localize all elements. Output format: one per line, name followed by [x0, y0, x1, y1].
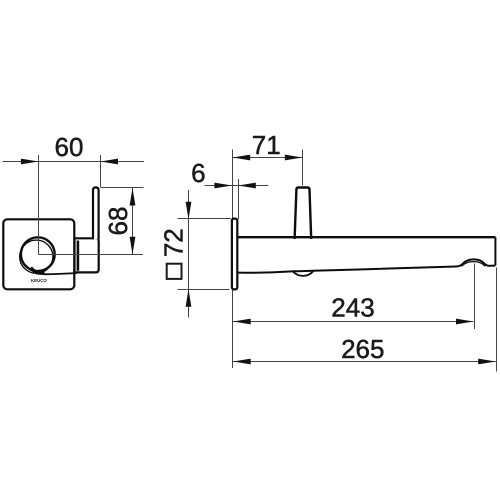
dimension 72 top arrow — [186, 202, 192, 220]
spout bottom edge with aerator arch — [237, 259, 495, 272]
horizontal centerline of knob — [38, 254, 143, 256]
svg-text:243: 243 — [331, 293, 374, 323]
svg-text:KEUCO: KEUCO — [31, 278, 47, 283]
aerator extension line — [474, 264, 476, 330]
right end extension line — [496, 268, 498, 372]
dimension 243 line — [233, 321, 474, 323]
dimension 68 down arrow — [130, 237, 136, 255]
svg-text:60: 60 — [55, 132, 84, 162]
dimension 71 left arrow — [233, 155, 251, 161]
dimension 265 left arrow — [233, 359, 251, 365]
dimension 72 line — [188, 190, 190, 318]
dimension 72 bottom arrow — [186, 289, 192, 307]
spout wall flange (side view) — [232, 219, 237, 290]
dimension 265 right arrow — [478, 359, 496, 365]
dimension 6 right arrow — [238, 183, 256, 189]
dimension 243 left arrow — [233, 319, 251, 325]
dimension 68 line — [132, 188, 134, 255]
dimension 243 right arrow — [456, 319, 474, 325]
dimension 6 left arrow — [214, 183, 232, 189]
hub seam line — [77, 241, 80, 271]
dimension 72 square symbol — [167, 264, 182, 279]
knob inner circle — [20, 240, 53, 273]
stick centerline — [302, 150, 304, 186]
dimension 71 right arrow — [285, 155, 303, 161]
aerator inner arch line — [462, 262, 485, 267]
dimension 265 line — [233, 361, 496, 363]
flange front extension line — [238, 179, 240, 219]
spout right end edge — [494, 237, 496, 265]
svg-text:71: 71 — [252, 130, 281, 160]
svg-text:6: 6 — [191, 158, 205, 188]
lever tip thick arc — [31, 268, 45, 273]
svg-text:265: 265 — [341, 334, 384, 364]
lever lower edge line — [36, 273, 77, 274]
lever blade (vertical, side view) — [93, 187, 99, 239]
knob outer circle — [21, 237, 55, 271]
dimension 71 line — [233, 157, 303, 159]
dimension 60 left arrow — [21, 159, 39, 165]
dimension 72 top extension line — [178, 218, 231, 220]
dimension 72 bottom extension line — [178, 289, 230, 291]
dimension 60 right arrow — [101, 159, 119, 165]
dimension 68 up arrow — [130, 188, 136, 206]
dimension 60 right extension line — [100, 155, 102, 187]
svg-text:72: 72 — [158, 228, 188, 257]
spout lever stick (side view) — [295, 188, 312, 240]
vertical centerline of knob — [38, 155, 40, 255]
lever hub block (side escutcheon) — [75, 238, 99, 272]
dimension 60 line — [3, 161, 145, 163]
dimension 68 top extension line — [101, 187, 144, 189]
svg-text:68: 68 — [103, 207, 133, 236]
spout top edge — [237, 236, 495, 238]
wall plate (front view, left figure) — [3, 219, 74, 289]
dimension 6 line — [205, 185, 269, 187]
wall extension line (right figure) — [232, 150, 234, 369]
spout underside screw bump — [293, 271, 314, 276]
